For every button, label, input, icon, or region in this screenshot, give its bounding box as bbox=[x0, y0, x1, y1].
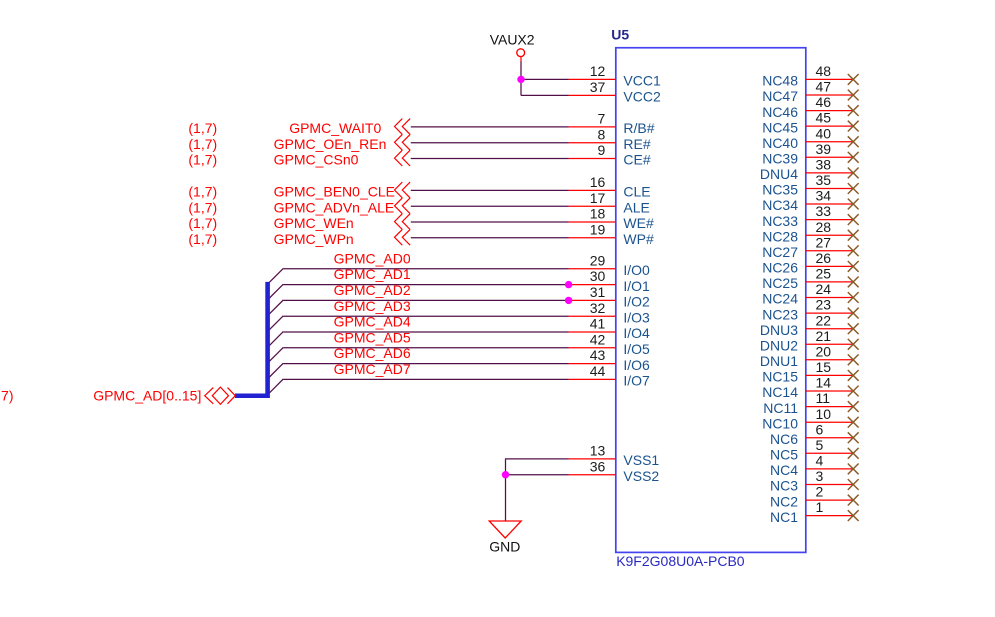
svg-text:NC4: NC4 bbox=[770, 462, 798, 478]
svg-text:GPMC_CSn0: GPMC_CSn0 bbox=[274, 152, 359, 168]
svg-text:2: 2 bbox=[816, 484, 824, 500]
svg-text:NC25: NC25 bbox=[762, 275, 798, 291]
svg-text:27: 27 bbox=[816, 234, 832, 250]
svg-text:23: 23 bbox=[816, 297, 832, 313]
svg-text:15: 15 bbox=[816, 359, 832, 375]
svg-text:NC5: NC5 bbox=[770, 447, 798, 463]
svg-text:20: 20 bbox=[816, 343, 832, 359]
svg-text:(1,7): (1,7) bbox=[0, 387, 13, 403]
svg-text:9: 9 bbox=[598, 142, 606, 158]
svg-text:GPMC_AD0: GPMC_AD0 bbox=[334, 250, 411, 266]
svg-text:NC33: NC33 bbox=[762, 213, 798, 229]
svg-text:18: 18 bbox=[590, 206, 606, 222]
svg-text:38: 38 bbox=[816, 157, 832, 173]
svg-text:I/O5: I/O5 bbox=[623, 341, 650, 357]
svg-text:NC3: NC3 bbox=[770, 478, 798, 494]
svg-text:(1,7): (1,7) bbox=[188, 199, 217, 215]
svg-text:U5: U5 bbox=[611, 27, 629, 43]
svg-text:NC23: NC23 bbox=[762, 306, 798, 322]
svg-text:NC2: NC2 bbox=[770, 493, 798, 509]
svg-text:GPMC_AD[0..15]: GPMC_AD[0..15] bbox=[93, 387, 201, 403]
svg-text:DNU3: DNU3 bbox=[760, 322, 798, 338]
svg-text:GPMC_AD2: GPMC_AD2 bbox=[334, 282, 411, 298]
svg-text:47: 47 bbox=[816, 79, 832, 95]
svg-text:GPMC_ADVn_ALE: GPMC_ADVn_ALE bbox=[274, 199, 395, 215]
svg-text:GPMC_WEn: GPMC_WEn bbox=[274, 215, 354, 231]
svg-text:NC27: NC27 bbox=[762, 244, 798, 260]
svg-text:NC34: NC34 bbox=[762, 197, 798, 213]
svg-text:33: 33 bbox=[816, 203, 832, 219]
svg-text:3: 3 bbox=[816, 468, 824, 484]
svg-text:NC39: NC39 bbox=[762, 151, 798, 167]
svg-text:31: 31 bbox=[590, 284, 606, 300]
svg-text:NC26: NC26 bbox=[762, 260, 798, 276]
svg-text:K9F2G08U0A-PCB0: K9F2G08U0A-PCB0 bbox=[616, 553, 745, 569]
svg-text:(1,7): (1,7) bbox=[188, 136, 217, 152]
svg-text:1: 1 bbox=[816, 499, 824, 515]
svg-text:GPMC_WAIT0: GPMC_WAIT0 bbox=[289, 120, 381, 136]
svg-text:VCC2: VCC2 bbox=[623, 89, 661, 105]
svg-text:34: 34 bbox=[816, 188, 832, 204]
svg-text:GPMC_OEn_REn: GPMC_OEn_REn bbox=[274, 136, 387, 152]
svg-text:43: 43 bbox=[590, 347, 606, 363]
svg-text:8: 8 bbox=[598, 126, 606, 142]
svg-text:32: 32 bbox=[590, 300, 606, 316]
svg-text:DNU4: DNU4 bbox=[760, 166, 798, 182]
svg-text:NC24: NC24 bbox=[762, 291, 798, 307]
svg-text:GPMC_AD7: GPMC_AD7 bbox=[334, 361, 411, 377]
svg-text:I/O2: I/O2 bbox=[623, 294, 650, 310]
svg-text:NC47: NC47 bbox=[762, 88, 798, 104]
svg-text:VAUX2: VAUX2 bbox=[490, 31, 535, 47]
svg-text:CE#: CE# bbox=[623, 152, 650, 168]
svg-text:25: 25 bbox=[816, 266, 832, 282]
svg-text:I/O1: I/O1 bbox=[623, 278, 650, 294]
svg-text:RE#: RE# bbox=[623, 136, 650, 152]
svg-text:48: 48 bbox=[816, 63, 832, 79]
svg-text:46: 46 bbox=[816, 94, 832, 110]
svg-text:GPMC_AD1: GPMC_AD1 bbox=[334, 266, 411, 282]
svg-text:12: 12 bbox=[590, 63, 606, 79]
svg-text:I/O3: I/O3 bbox=[623, 309, 650, 325]
svg-text:VSS2: VSS2 bbox=[623, 468, 659, 484]
svg-text:NC14: NC14 bbox=[762, 384, 798, 400]
svg-text:GND: GND bbox=[489, 538, 520, 554]
svg-text:GPMC_AD5: GPMC_AD5 bbox=[334, 329, 411, 345]
svg-text:24: 24 bbox=[816, 281, 832, 297]
svg-text:28: 28 bbox=[816, 219, 832, 235]
svg-text:GPMC_AD4: GPMC_AD4 bbox=[334, 314, 411, 330]
svg-text:5: 5 bbox=[816, 437, 824, 453]
svg-text:I/O6: I/O6 bbox=[623, 357, 650, 373]
svg-text:VCC1: VCC1 bbox=[623, 73, 661, 89]
svg-text:4: 4 bbox=[816, 453, 824, 469]
svg-text:11: 11 bbox=[816, 390, 831, 406]
svg-text:VSS1: VSS1 bbox=[623, 452, 659, 468]
svg-text:NC45: NC45 bbox=[762, 119, 798, 135]
svg-text:ALE: ALE bbox=[623, 199, 649, 215]
svg-text:(1,7): (1,7) bbox=[188, 184, 217, 200]
svg-text:I/O4: I/O4 bbox=[623, 325, 650, 341]
svg-text:13: 13 bbox=[590, 443, 606, 459]
svg-text:21: 21 bbox=[816, 328, 832, 344]
svg-text:GPMC_AD3: GPMC_AD3 bbox=[334, 298, 411, 314]
svg-text:NC11: NC11 bbox=[763, 400, 798, 416]
svg-text:14: 14 bbox=[816, 375, 832, 391]
svg-text:29: 29 bbox=[590, 252, 606, 268]
svg-text:45: 45 bbox=[816, 110, 832, 126]
svg-text:GPMC_BEN0_CLE: GPMC_BEN0_CLE bbox=[274, 184, 395, 200]
svg-text:R/B#: R/B# bbox=[623, 120, 654, 136]
svg-text:22: 22 bbox=[816, 312, 832, 328]
svg-text:I/O7: I/O7 bbox=[623, 373, 650, 389]
svg-text:41: 41 bbox=[590, 316, 606, 332]
svg-text:NC48: NC48 bbox=[762, 73, 798, 89]
svg-text:30: 30 bbox=[590, 268, 606, 284]
svg-text:WP#: WP# bbox=[623, 231, 654, 247]
svg-text:37: 37 bbox=[590, 79, 606, 95]
svg-text:NC15: NC15 bbox=[762, 369, 798, 385]
svg-text:35: 35 bbox=[816, 172, 832, 188]
svg-text:NC35: NC35 bbox=[762, 182, 798, 198]
svg-text:NC6: NC6 bbox=[770, 431, 798, 447]
svg-text:6: 6 bbox=[816, 421, 824, 437]
svg-text:26: 26 bbox=[816, 250, 832, 266]
svg-text:GPMC_WPn: GPMC_WPn bbox=[274, 231, 354, 247]
svg-text:42: 42 bbox=[590, 331, 606, 347]
svg-text:10: 10 bbox=[816, 406, 832, 422]
svg-text:40: 40 bbox=[816, 125, 832, 141]
svg-text:(1,7): (1,7) bbox=[188, 215, 217, 231]
svg-text:WE#: WE# bbox=[623, 215, 654, 231]
svg-text:NC1: NC1 bbox=[770, 509, 798, 525]
svg-text:36: 36 bbox=[590, 458, 606, 474]
svg-text:17: 17 bbox=[590, 190, 606, 206]
svg-text:CLE: CLE bbox=[623, 184, 650, 200]
svg-text:DNU2: DNU2 bbox=[760, 338, 798, 354]
svg-text:NC40: NC40 bbox=[762, 135, 798, 151]
svg-text:NC46: NC46 bbox=[762, 104, 798, 120]
svg-text:I/O0: I/O0 bbox=[623, 262, 650, 278]
svg-text:39: 39 bbox=[816, 141, 832, 157]
svg-text:(1,7): (1,7) bbox=[188, 152, 217, 168]
svg-text:44: 44 bbox=[590, 363, 606, 379]
svg-text:16: 16 bbox=[590, 174, 606, 190]
svg-text:(1,7): (1,7) bbox=[188, 231, 217, 247]
svg-text:NC28: NC28 bbox=[762, 228, 798, 244]
svg-text:NC10: NC10 bbox=[762, 415, 798, 431]
svg-text:(1,7): (1,7) bbox=[188, 120, 217, 136]
svg-text:GPMC_AD6: GPMC_AD6 bbox=[334, 345, 411, 361]
svg-text:7: 7 bbox=[598, 111, 606, 127]
svg-text:19: 19 bbox=[590, 221, 606, 237]
svg-text:DNU1: DNU1 bbox=[760, 353, 798, 369]
